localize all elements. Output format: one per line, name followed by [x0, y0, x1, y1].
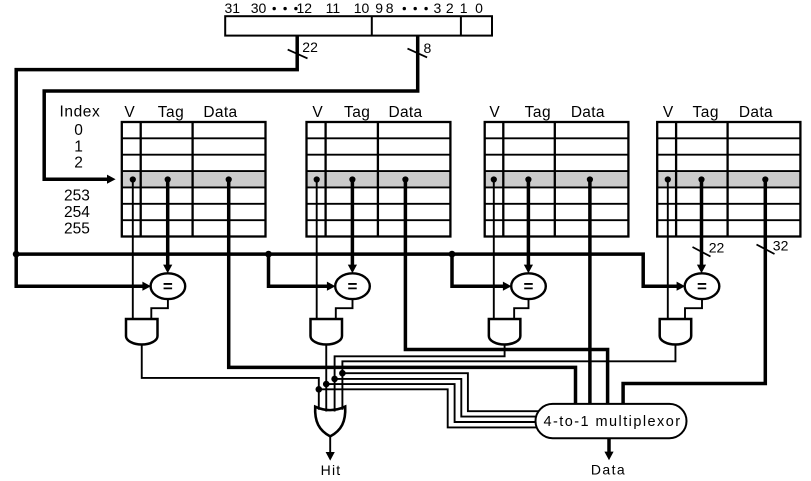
wire: select 2 to multiplexor [335, 379, 538, 417]
wire: hit output [329, 436, 331, 452]
node: bank 4 valid bit tap [665, 176, 671, 182]
arrowhead bank 2 tag into comparator [348, 265, 357, 274]
4-to-1 multiplexor [536, 404, 687, 438]
node: bank 2 data tap [402, 176, 408, 182]
cache bank 1 table grid [122, 122, 266, 237]
wire: select 0 to multiplexor [319, 389, 538, 427]
node: bank 4 data tap [762, 176, 768, 182]
wire: comparator U2 output to AND gate [336, 299, 353, 319]
svg-text:=: = [348, 277, 358, 296]
wire: bank 1 valid bit to AND gate [132, 180, 134, 320]
node: bank 1 valid bit tap [130, 176, 136, 182]
svg-text:11: 11 [326, 0, 341, 16]
wire: bank 2 valid bit to AND gate [316, 180, 318, 320]
address field divider tag/index [371, 16, 373, 35]
junction: tag bus / comparator 1 branch [13, 251, 20, 258]
node: bank 1 data tap [226, 176, 232, 182]
comparator U4 (=) [685, 273, 720, 299]
arrowhead tag bus into comparator 3 [503, 282, 512, 291]
node: bank 4 tag tap [698, 176, 704, 182]
svg-text:V: V [124, 104, 135, 121]
wire: select 3 to multiplexor [342, 373, 540, 411]
AND gate G1 [126, 319, 158, 345]
OR gate (hit) [315, 407, 345, 437]
svg-text:Index: Index [59, 104, 100, 121]
wire: tag bus branch to comparator 3 [452, 254, 503, 286]
svg-text:0: 0 [74, 122, 83, 139]
arrowhead bank 3 tag into comparator [524, 265, 533, 274]
wire: AND G1 output to OR gate input 1 [142, 344, 319, 409]
wire: comparator U3 output to AND gate [514, 299, 528, 319]
svg-text:31: 31 [225, 0, 241, 16]
node: bank 3 valid bit tap [491, 176, 497, 182]
address bit labels 31..0 [225, 0, 484, 16]
wire: bank 3 tag to comparator [527, 180, 531, 266]
wire: select 1 to multiplexor [326, 384, 537, 422]
junction: tag bus / comparator 3 branch [449, 251, 456, 258]
arrowhead index into set row [107, 175, 116, 184]
svg-text:9: 9 [375, 0, 383, 16]
junction: select 2 branch [331, 376, 338, 383]
slash bank 4 data width [757, 245, 775, 255]
arrowhead data out [604, 452, 613, 461]
svg-text:8: 8 [386, 0, 394, 16]
AND gate G3 [489, 319, 520, 345]
AND gate G2 [311, 319, 343, 345]
svg-text:1: 1 [74, 138, 83, 155]
comparator U2 (=) [335, 273, 370, 299]
node: bank 3 tag tap [525, 176, 531, 182]
junction: select 1 branch [323, 381, 330, 388]
AND gate G4 [660, 319, 692, 345]
svg-text:Hit: Hit [321, 462, 342, 478]
row labels 253 254 255 [64, 188, 90, 238]
address field divider index/offset [460, 16, 462, 35]
wire: index field down-left-down to index arrow [44, 36, 418, 180]
svg-text:2: 2 [446, 0, 454, 16]
wire: bank 2 tag to comparator [351, 180, 355, 266]
cache bank 1 headers V Tag Data [124, 104, 237, 121]
arrowhead tag bus into comparator 2 [327, 282, 336, 291]
address register box [225, 16, 492, 35]
svg-text:=: = [524, 277, 534, 296]
wire: bank 3 data to multiplexor [588, 180, 592, 404]
arrowhead bank 1 tag into comparator [163, 265, 172, 274]
svg-text:254: 254 [64, 204, 90, 221]
comparator U1 (=) [151, 273, 186, 299]
svg-text:32: 32 [773, 237, 789, 253]
svg-text:Tag: Tag [158, 104, 185, 121]
svg-text:Data: Data [571, 104, 605, 121]
wire: bank 1 data to multiplexor [229, 180, 576, 404]
svg-text:4-to-1 multiplexor: 4-to-1 multiplexor [543, 414, 681, 430]
wire: mux data output [607, 438, 611, 452]
svg-text:V: V [312, 104, 323, 121]
slash index width [408, 49, 428, 58]
svg-text:1: 1 [460, 0, 468, 16]
junction: select 3 branch [339, 370, 346, 377]
svg-text:V: V [489, 104, 500, 121]
slash tag width [288, 50, 308, 59]
wire: AND G2 output to OR gate input 2 [325, 344, 327, 411]
comparator U3 (=) [511, 273, 546, 299]
cache bank 2 selected-set shaded row [307, 171, 451, 187]
svg-text:22: 22 [709, 239, 725, 255]
wire: bank 4 data to multiplexor [623, 180, 765, 404]
wire: AND G4 output to OR gate input 4 [342, 344, 675, 409]
cache bank 2 headers V Tag Data [312, 104, 422, 121]
svg-text:253: 253 [64, 188, 90, 205]
wire: bank 2 data to multiplexor [405, 180, 607, 404]
wire: bank 1 tag to comparator [166, 180, 170, 266]
wire: tag compare bus [16, 254, 677, 286]
node: bank 3 data tap [587, 176, 593, 182]
cache bank 2 table grid [307, 122, 451, 237]
svg-text:Tag: Tag [525, 104, 552, 121]
svg-text:Data: Data [591, 461, 626, 477]
cache bank 1 selected-set shaded row [122, 171, 266, 187]
svg-text:8: 8 [424, 40, 432, 56]
wire: bank 3 valid bit to AND gate [493, 180, 495, 320]
svg-text:12: 12 [297, 0, 313, 16]
cache bank 4 selected-set shaded row [657, 171, 800, 187]
svg-text:Data: Data [203, 104, 237, 121]
arrowhead tag bus into comparator 4 [677, 282, 686, 291]
row labels 0 1 2 [74, 122, 83, 172]
arrowhead hit [326, 452, 335, 461]
svg-text:Tag: Tag [693, 104, 720, 121]
cache bank 3 selected-set shaded row [485, 171, 629, 187]
node: bank 1 tag tap [165, 176, 171, 182]
wire: bank 4 valid bit to AND gate [667, 180, 669, 320]
arrowhead bank 4 tag into comparator [697, 265, 706, 274]
svg-text:V: V [663, 104, 674, 121]
svg-text:10: 10 [354, 0, 370, 16]
svg-text:30: 30 [251, 0, 267, 16]
svg-text:=: = [163, 277, 173, 296]
slash bank 4 tag width [693, 247, 711, 257]
wire: tag bus branch to comparator 2 [269, 254, 328, 286]
svg-text:Tag: Tag [344, 104, 371, 121]
junction: tag bus / comparator 2 branch [265, 251, 272, 258]
node: bank 2 tag tap [349, 176, 355, 182]
svg-text:Data: Data [389, 104, 423, 121]
wire: bank 4 tag to comparator [700, 180, 704, 266]
wire: tag field down-left-down to comparators bus [16, 36, 297, 287]
node: bank 2 valid bit tap [314, 176, 320, 182]
svg-text:2: 2 [74, 155, 83, 172]
wire: comparator U1 output to AND gate [151, 299, 168, 319]
svg-text:Data: Data [739, 104, 773, 121]
svg-text:0: 0 [475, 0, 483, 16]
svg-text:=: = [697, 277, 707, 296]
cache bank 4 headers V Tag Data [663, 104, 773, 121]
cache bank 3 headers V Tag Data [489, 104, 604, 121]
wire: comparator U4 output to AND gate [685, 299, 702, 319]
cache bank 4 table grid [657, 122, 800, 237]
cache bank 3 table grid [485, 122, 629, 237]
svg-text:22: 22 [302, 39, 318, 55]
junction: select 0 branch [316, 386, 323, 393]
svg-text:255: 255 [64, 220, 90, 237]
arrowhead tag bus into comparator 1 [142, 282, 151, 291]
wire: AND G3 output to OR gate input 3 [335, 344, 505, 411]
svg-text:3: 3 [434, 0, 442, 16]
